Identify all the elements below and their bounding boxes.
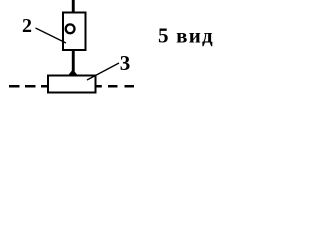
svg-text:3: 3 [120,51,131,75]
svg-text:5 вид: 5 вид [158,24,214,48]
svg-text:2: 2 [22,15,32,37]
